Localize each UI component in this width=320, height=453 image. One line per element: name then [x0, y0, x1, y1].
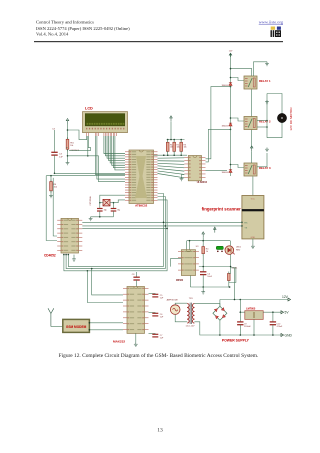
svg-text:GND: GND: [251, 237, 256, 239]
resistor RV1 10k: [66, 137, 69, 151]
ground on motor loop: [265, 100, 269, 104]
junction: [99, 216, 101, 218]
wire: [180, 151, 182, 155]
junction: [230, 86, 232, 88]
svg-text:U3: U3: [196, 246, 199, 248]
wire GND rail: [220, 334, 281, 336]
wire RL2 NC to motor: [257, 126, 267, 128]
svg-text:POWER SUPPLY: POWER SUPPLY: [222, 339, 250, 343]
wire: [173, 151, 175, 155]
wire serial rail TX: [82, 225, 242, 227]
junction: [272, 311, 274, 313]
wire pullup top bus: [167, 139, 185, 141]
junction: [202, 286, 204, 288]
terminal GND: [281, 334, 292, 338]
wire LED block bottom rail: [190, 286, 230, 288]
wire motor loop top: [267, 94, 282, 114]
resistor R1 10k: [166, 140, 169, 153]
junction: [173, 154, 175, 156]
logic probe green: [216, 246, 223, 252]
relay RL2: [244, 117, 257, 130]
junction scanner RX: [241, 222, 243, 224]
LCD display LCD1: [83, 112, 128, 133]
wire serial rail RX: [82, 221, 242, 223]
wire: [99, 203, 101, 208]
relay RL3: [244, 163, 257, 176]
svg-text:12V: 12V: [282, 295, 289, 299]
wire: [110, 202, 114, 204]
svg-text:ISSN 2224-5774 (Paper) ISSN 22: ISSN 2224-5774 (Paper) ISSN 2225-0492 (O…: [36, 26, 130, 31]
level shifter U5 MAX232: [123, 287, 149, 334]
capacitor C2 33pF: [111, 209, 117, 212]
svg-text:33p: 33p: [117, 209, 120, 211]
junction: [230, 129, 232, 131]
junction: [219, 334, 221, 336]
wire scanner GND: [252, 239, 254, 245]
wire: [136, 280, 138, 287]
wire RL3 right to ground: [257, 153, 267, 167]
svg-text:AT89C52: AT89C52: [135, 203, 148, 207]
junction: [266, 120, 268, 122]
wire crystal gnd rail: [91, 216, 114, 218]
junction: [91, 268, 93, 270]
wire: [113, 211, 115, 217]
resistor R5: [228, 272, 231, 283]
wire left rail to U1: [46, 175, 125, 177]
wire LCD RS to U1: [95, 136, 125, 174]
wire LCD VSS: [68, 130, 87, 140]
wire to 12V rail: [234, 268, 236, 300]
svg-text:1k: 1k: [206, 251, 208, 253]
svg-text:C3: C3: [59, 154, 63, 156]
wire U3 out rail: [199, 266, 231, 268]
wire long rail to U1: [55, 172, 126, 174]
wire U2 gnd: [182, 174, 185, 176]
junction: [163, 154, 165, 156]
svg-text:C4: C4: [207, 273, 210, 275]
wire RL2 bottom down: [251, 130, 253, 148]
junction: [253, 334, 255, 336]
junction: [230, 77, 232, 79]
wire U bus 2 to U1: [66, 197, 165, 269]
motor M1 12V DC: [277, 113, 286, 122]
svg-text:LCD: LCD: [85, 107, 93, 111]
terminal 5V: [281, 311, 289, 315]
wire: [113, 203, 115, 208]
wire: [202, 241, 204, 247]
svg-text:TR1: TR1: [189, 298, 194, 300]
wire RL3 to scanner VCC: [252, 177, 254, 196]
svg-text:RX: RX: [244, 223, 248, 225]
wire: [180, 140, 182, 143]
header rule: [34, 41, 283, 42]
junction: [167, 154, 169, 156]
junction: [87, 155, 89, 157]
wire motor loop bottom: [267, 123, 282, 138]
svg-text:C3: C3: [52, 129, 56, 131]
wire 12V rail: [220, 299, 288, 301]
ground below CD4052: [72, 257, 76, 261]
svg-text:10k: 10k: [54, 187, 57, 189]
junction: [68, 254, 70, 256]
wire: [186, 241, 188, 250]
junction: [67, 155, 69, 157]
wire left loop outer: [46, 176, 57, 241]
wire: [167, 151, 169, 155]
wire: [149, 333, 156, 335]
svg-text:1uF: 1uF: [59, 156, 63, 158]
junction: [166, 228, 168, 230]
wire: [202, 287, 204, 290]
wire: [99, 211, 101, 217]
wire: [230, 241, 232, 246]
svg-text:10k: 10k: [177, 147, 180, 149]
wire: [202, 254, 204, 272]
wire bus to MAX232 R1OUT: [92, 269, 123, 295]
ground right of RL3: [265, 148, 269, 152]
svg-text:CD4052: CD4052: [44, 253, 56, 257]
svg-text:MAX232: MAX232: [113, 339, 125, 343]
svg-text:Control Theory and Informatics: Control Theory and Informatics: [36, 19, 94, 24]
svg-text:5V: 5V: [285, 311, 290, 315]
wire: [239, 325, 241, 335]
AC source V1: [170, 305, 180, 315]
wire: [136, 272, 138, 277]
svg-text:www.iiste.org: www.iiste.org: [259, 19, 284, 24]
svg-text:10k: 10k: [70, 145, 73, 147]
timer U3: [178, 250, 199, 276]
svg-text:1N4007: 1N4007: [221, 85, 229, 87]
ground LED block: [201, 290, 205, 294]
svg-text:13: 13: [157, 428, 163, 434]
wire 12V to 7805 in: [240, 300, 245, 313]
diode D1 1N4007: [229, 83, 232, 86]
wire R5 loop: [229, 268, 236, 283]
wire: [173, 140, 175, 143]
junction: [173, 139, 175, 141]
junction: [65, 254, 67, 256]
wire 5V rail: [263, 311, 281, 313]
antenna AE1: [48, 308, 54, 326]
capacitor C7 1uF: [152, 334, 158, 337]
junction: [170, 139, 172, 141]
wire to C3: [54, 130, 56, 152]
U1 body shading: [135, 156, 147, 198]
wire RV1 to ground: [67, 149, 69, 161]
svg-text:2200uF: 2200uF: [244, 326, 252, 328]
svg-text:RED: RED: [236, 249, 241, 251]
wire to RL2 coil: [231, 118, 245, 121]
wire bridge to gnd: [219, 320, 221, 335]
wire: [229, 273, 231, 275]
wire: [149, 312, 156, 314]
wire to RL1 coil: [231, 78, 245, 81]
wire +12V rail: [230, 55, 232, 176]
svg-text:GSM MODEM: GSM MODEM: [66, 325, 87, 329]
transformer TR1: [187, 303, 194, 324]
capacitor C1 33pF: [97, 209, 103, 212]
wire +5V down: [170, 122, 172, 140]
junction: [272, 334, 274, 336]
wire LCD VDD: [69, 136, 91, 150]
wire to RL3 coil: [231, 165, 245, 168]
junction: [63, 254, 65, 256]
junction: [67, 129, 69, 131]
junction: [99, 202, 101, 204]
wire bundle U1 to U2: [158, 158, 185, 178]
svg-text:VCC: VCC: [251, 198, 256, 200]
wire: [272, 325, 274, 335]
svg-text:Figure 12. Complete Circuit Di: Figure 12. Complete Circuit Diagram of t…: [59, 352, 259, 359]
wire: [167, 140, 169, 143]
wire LCD RW to U1: [97, 136, 125, 179]
wire bridge to 12V rail: [219, 300, 221, 307]
wire V1 to TR1 low: [175, 314, 187, 321]
wire bus to MAX232 T1IN: [87, 271, 123, 303]
junction: [230, 266, 232, 268]
wire RL1 to ground: [254, 62, 268, 76]
wire RL1 bottom to RL2 top: [251, 89, 253, 117]
capacitor C3 1uF: [51, 152, 57, 155]
svg-text:fingerprint scanner: fingerprint scanner: [202, 207, 241, 212]
ground below RV1: [66, 161, 70, 165]
diode D3 1N4007: [229, 170, 232, 173]
svg-text:LM7805: LM7805: [246, 307, 256, 310]
wire crystal to XTAL2: [114, 200, 126, 203]
wire: [272, 312, 274, 322]
junction: [180, 139, 182, 141]
ground below R6: [49, 194, 53, 198]
wire motor loop left: [266, 94, 268, 138]
junction: [234, 299, 236, 301]
junction: [240, 334, 242, 336]
svg-text:1uF: 1uF: [160, 297, 164, 299]
wire to U3 left pin: [170, 259, 181, 267]
junction: [87, 270, 89, 272]
capacitor C5 1uF: [152, 294, 158, 297]
svg-text:Vol.4, No.4, 2014: Vol.4, No.4, 2014: [36, 32, 69, 38]
svg-text:ULN2003: ULN2003: [197, 181, 208, 184]
svg-text:1N4007: 1N4007: [221, 172, 229, 174]
wire +V to RL3 top: [251, 151, 253, 163]
wire bundle LCD data to U1: [104, 136, 125, 170]
svg-text:CRYSTAL: CRYSTAL: [89, 195, 92, 205]
wire +12V to RL1 top: [231, 69, 252, 76]
junction: [189, 240, 191, 242]
svg-text:1N4007: 1N4007: [221, 126, 229, 128]
svg-text:LED1: LED1: [236, 247, 242, 249]
junction scanner TX: [241, 225, 243, 227]
svg-text:12V: 12V: [229, 50, 233, 52]
wire U2 out1 to RL1 drive: [206, 87, 231, 159]
wire left loop inner: [53, 178, 57, 236]
wire: [202, 237, 204, 240]
wire LCD E down: [87, 136, 89, 156]
capacitor C8 1uF: [133, 277, 139, 280]
wire pullup bottom bus: [154, 154, 187, 156]
svg-text:12V DC MOTOR: 12V DC MOTOR: [289, 107, 293, 131]
wire: [228, 281, 230, 288]
wire: [189, 276, 191, 288]
LCD pin stubs: [87, 133, 117, 136]
capacitor C4 10uF: [200, 272, 206, 275]
power +5V arrow above R4: [202, 232, 205, 238]
power arrow on TX rail: [214, 227, 217, 233]
junction: [167, 139, 169, 141]
junction: [180, 154, 182, 156]
ground below MAX232: [134, 343, 138, 347]
svg-text:M6586: M6586: [176, 280, 184, 282]
bridge rectifier BR1: [213, 306, 227, 320]
junction: [266, 126, 268, 128]
resistor R4 1k: [202, 245, 205, 256]
wire serial rail 3: [82, 227, 167, 229]
junction: [202, 266, 204, 268]
junction: [202, 240, 204, 242]
wire GSM TX to MAX232: [89, 322, 123, 324]
wire MAX232 gnd: [135, 333, 137, 342]
capacitor C10 470uF: [270, 322, 276, 325]
wire: [189, 241, 191, 250]
wire TR1 to bridge top: [194, 304, 220, 307]
wire CD4052 to ground: [73, 255, 75, 258]
IISTE logo: [271, 27, 282, 38]
junction GSM TX pin: [89, 322, 91, 324]
svg-text:AMF MODE: AMF MODE: [167, 299, 179, 302]
junction: [54, 173, 56, 175]
junction: [230, 164, 232, 166]
regulator U6 LM7805: [245, 311, 263, 320]
svg-text:10uF: 10uF: [207, 276, 212, 278]
wire stub: [66, 147, 68, 149]
ground crystal: [89, 217, 93, 221]
power +V arrow above RL3: [250, 146, 253, 152]
resistor R2 10k: [173, 140, 176, 153]
wire U2 out3 to RL3 drive: [206, 169, 228, 171]
junction: [229, 286, 231, 288]
junction GSM RX pin: [89, 329, 91, 331]
analog mux U4 CD4052: [57, 218, 82, 253]
wire TR1 to gnd rail: [194, 322, 220, 335]
wire: [149, 293, 156, 295]
wire LED block top rail: [187, 240, 231, 242]
power +5V arrow left: [66, 119, 69, 125]
wire antenna to GSM: [51, 326, 63, 328]
capacitor C9 2200uF: [237, 322, 243, 325]
svg-text:C8: C8: [132, 274, 135, 276]
wire U bus 1 to U1: [68, 194, 163, 267]
ground below U2: [180, 177, 184, 181]
wire: [202, 275, 204, 287]
wire: [50, 191, 52, 194]
ground above RL1 right: [265, 62, 269, 66]
svg-text:12-0-12V: 12-0-12V: [186, 326, 196, 328]
diode D2 1N4007: [229, 123, 232, 126]
junction: [50, 175, 52, 177]
driver U2 ULN2003: [184, 156, 205, 181]
svg-text:RELAY 1: RELAY 1: [259, 79, 271, 83]
resistor R6 10k: [50, 180, 53, 193]
wire U2 out2 to RL2 drive: [206, 129, 231, 162]
junction: [163, 222, 165, 224]
resistor R3 10k: [180, 140, 183, 153]
junction: [230, 68, 232, 70]
wire C3 down: [54, 155, 56, 173]
svg-text:33p: 33p: [104, 209, 107, 211]
junction: [240, 311, 242, 313]
svg-text:1uF: 1uF: [160, 316, 164, 318]
wire U bus 3 to U1: [64, 200, 167, 271]
junction: [240, 299, 242, 301]
wire to R6: [50, 176, 52, 182]
wire: [239, 312, 241, 322]
junction: [165, 225, 167, 227]
power +5V arrow center: [170, 116, 173, 122]
wire: [100, 202, 103, 204]
ground below scanner: [251, 245, 255, 249]
wire LED down: [230, 255, 232, 274]
svg-text:470uF: 470uF: [277, 326, 283, 328]
svg-text:10k: 10k: [184, 147, 187, 149]
GSM modem module: [63, 319, 90, 332]
wire 7805 gnd: [253, 319, 255, 335]
wire: [181, 175, 183, 177]
relay RL1: [244, 76, 257, 89]
capacitor C6 1uF: [152, 313, 158, 316]
svg-text:1uF: 1uF: [160, 337, 164, 339]
wire LCD E to U1: [68, 156, 126, 182]
junction: [113, 202, 115, 204]
junction: [230, 117, 232, 119]
wire V1 to TR1: [175, 303, 187, 305]
terminal 12V: [282, 295, 291, 301]
LED D4: [225, 246, 235, 255]
wire crystal to XTAL1: [100, 195, 125, 203]
fingerprint scanner module: [242, 196, 264, 239]
wire GSM RX to MAX232: [89, 329, 123, 331]
microcontroller U1 AT89C52: [125, 150, 158, 204]
power +12V arrow: [229, 53, 233, 57]
svg-text:GND: GND: [285, 334, 293, 338]
crystal X1: [103, 199, 110, 206]
wire +5V to RV1: [67, 124, 69, 139]
wire RL2 NO to motor: [257, 120, 267, 122]
